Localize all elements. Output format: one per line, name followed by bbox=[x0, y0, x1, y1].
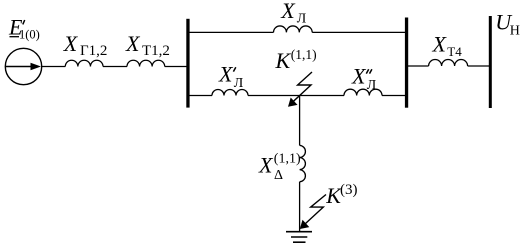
wire bbox=[299, 96, 301, 146]
svg-text:X: X bbox=[125, 31, 141, 56]
bus bar left bbox=[186, 19, 189, 108]
fault K(1,1) arrow bbox=[288, 72, 312, 107]
wire bbox=[248, 95, 300, 97]
inductor X'Л bbox=[212, 90, 248, 96]
svg-text:X: X bbox=[218, 62, 234, 87]
label XΔ(1,1) bbox=[258, 152, 301, 184]
label UН bbox=[495, 10, 520, 39]
svg-text:Г1,2: Г1,2 bbox=[80, 43, 107, 59]
label X'Л bbox=[218, 62, 244, 91]
svg-text:X: X bbox=[351, 64, 367, 89]
svg-text:(3): (3) bbox=[340, 182, 358, 198]
svg-text:Л: Л bbox=[367, 78, 377, 93]
wire bbox=[300, 95, 344, 97]
svg-text:(1,1): (1,1) bbox=[274, 152, 301, 167]
label K(1,1) bbox=[275, 47, 317, 73]
wire bbox=[312, 31, 406, 33]
svg-text:X: X bbox=[280, 0, 296, 23]
inductor XЛ bbox=[274, 26, 313, 32]
label K(3) bbox=[325, 182, 357, 208]
svg-text:Т1,2: Т1,2 bbox=[142, 43, 170, 59]
inductor XГ1,2 bbox=[65, 60, 103, 66]
bus bar right bbox=[405, 18, 408, 108]
label E'1(0) bbox=[8, 15, 40, 42]
svg-text:K: K bbox=[275, 48, 292, 73]
svg-text:X: X bbox=[432, 31, 448, 56]
wire bbox=[103, 66, 127, 68]
wire bbox=[188, 31, 274, 33]
inductor XΔ(1,1) bbox=[300, 145, 306, 181]
wire bbox=[468, 65, 489, 67]
svg-text:Т4: Т4 bbox=[447, 44, 462, 59]
ground bbox=[286, 232, 312, 243]
wire bbox=[188, 95, 212, 97]
source E1(0) bbox=[5, 48, 41, 84]
label XТ1,2 bbox=[125, 31, 170, 59]
svg-text:1(0): 1(0) bbox=[19, 28, 40, 42]
wire bbox=[41, 66, 65, 68]
svg-text:X: X bbox=[63, 31, 79, 56]
label XТ4 bbox=[432, 31, 463, 59]
inductor XТ1,2 bbox=[127, 60, 165, 66]
svg-text:Л: Л bbox=[234, 76, 244, 91]
wire bbox=[382, 95, 406, 97]
svg-text:X: X bbox=[258, 153, 274, 178]
label XГ1,2 bbox=[63, 31, 108, 59]
svg-text:Л: Л bbox=[297, 11, 307, 26]
label XЛ bbox=[280, 0, 307, 26]
label X''Л bbox=[351, 64, 377, 93]
inductor XТ4 bbox=[429, 60, 468, 66]
svg-text:(1,1): (1,1) bbox=[291, 47, 317, 62]
wire bbox=[407, 65, 429, 67]
inductor X''Л bbox=[344, 89, 382, 95]
bus bar UН bbox=[489, 16, 492, 108]
svg-text:Δ: Δ bbox=[274, 168, 283, 183]
svg-text:Н: Н bbox=[510, 24, 520, 39]
wire bbox=[165, 66, 187, 68]
fault K(3) arrow bbox=[300, 195, 326, 230]
wire bbox=[299, 182, 301, 232]
